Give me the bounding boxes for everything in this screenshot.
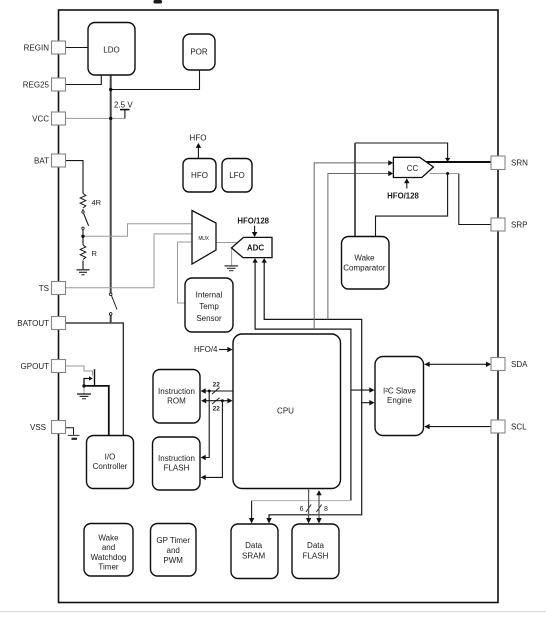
svg-text:8: 8: [324, 506, 328, 513]
svg-text:VSS: VSS: [30, 423, 46, 432]
svg-text:FLASH: FLASH: [303, 552, 329, 561]
svg-text:Timer: Timer: [98, 563, 118, 572]
svg-text:CPU: CPU: [277, 406, 294, 415]
svg-text:BATOUT: BATOUT: [17, 319, 49, 328]
svg-text:ROM: ROM: [167, 396, 186, 405]
svg-text:I²C Slave: I²C Slave: [383, 387, 416, 396]
svg-text:REGIN: REGIN: [24, 44, 50, 53]
svg-text:REG25: REG25: [23, 81, 50, 90]
svg-text:FLASH: FLASH: [164, 464, 190, 473]
svg-text:Wake: Wake: [354, 253, 375, 262]
svg-text:Watchdog: Watchdog: [91, 553, 127, 562]
svg-text:22: 22: [213, 406, 221, 413]
svg-text:ADC: ADC: [247, 243, 265, 252]
svg-text:POR: POR: [190, 48, 208, 57]
svg-text:Controller: Controller: [93, 462, 128, 471]
svg-text:GP Timer: GP Timer: [156, 536, 190, 545]
svg-text:SRAM: SRAM: [242, 552, 265, 561]
svg-text:Engine: Engine: [387, 396, 412, 405]
svg-text:SRP: SRP: [511, 221, 527, 230]
svg-text:Comparator: Comparator: [343, 263, 386, 272]
svg-text:MUX: MUX: [198, 236, 209, 242]
svg-text:Data: Data: [307, 541, 324, 550]
svg-text:TS: TS: [39, 284, 49, 293]
svg-text:CC: CC: [407, 164, 419, 173]
svg-text:Instruction: Instruction: [158, 387, 195, 396]
svg-text:SDA: SDA: [511, 360, 528, 369]
svg-text:Internal: Internal: [196, 291, 223, 300]
svg-text:4R: 4R: [92, 198, 102, 207]
svg-text:and: and: [167, 546, 180, 555]
svg-text:VCC: VCC: [32, 115, 49, 124]
svg-text:2.5 V: 2.5 V: [114, 100, 133, 109]
svg-text:HFO: HFO: [190, 134, 207, 143]
svg-text:HFO/128: HFO/128: [237, 217, 269, 226]
svg-text:Sensor: Sensor: [196, 314, 222, 323]
svg-text:and: and: [102, 543, 115, 552]
svg-text:6: 6: [300, 506, 304, 513]
svg-text:Temp: Temp: [199, 302, 219, 311]
svg-text:SCL: SCL: [511, 423, 527, 432]
svg-text:HFO: HFO: [191, 171, 208, 180]
svg-text:HFO/4: HFO/4: [194, 345, 218, 354]
svg-text:BAT: BAT: [34, 157, 49, 166]
svg-text:I/O: I/O: [105, 452, 116, 461]
svg-text:R: R: [92, 249, 98, 258]
svg-text:HFO/128: HFO/128: [387, 192, 419, 201]
svg-text:Data: Data: [245, 541, 262, 550]
svg-text:LFO: LFO: [229, 171, 245, 180]
svg-text:LDO: LDO: [103, 45, 119, 54]
svg-text:PWM: PWM: [163, 556, 183, 565]
svg-text:SRN: SRN: [511, 159, 528, 168]
svg-text:GPOUT: GPOUT: [21, 362, 50, 371]
svg-text:22: 22: [213, 381, 221, 388]
svg-text:Wake: Wake: [98, 534, 119, 543]
svg-text:Instruction: Instruction: [158, 454, 195, 463]
